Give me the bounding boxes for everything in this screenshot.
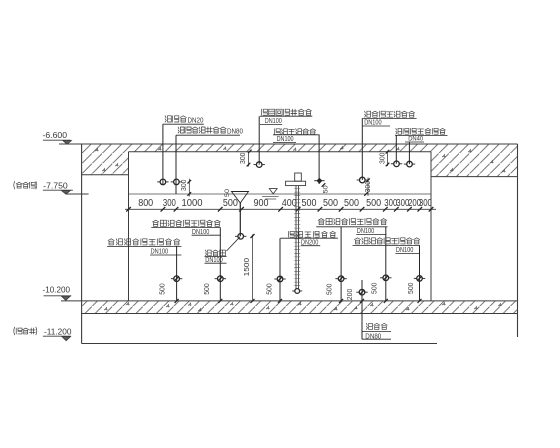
left wall inner face [128, 152, 130, 301]
label: drain pipe DN80 (fang kong guan) [366, 323, 387, 329]
label: outdoor hydrant pump suction pipe DN100 (right) [355, 238, 420, 244]
elbow symbol: overflow pipe bottom (to strainer) [238, 234, 244, 240]
elbow symbol: inlet pipe end [174, 179, 180, 185]
svg-text:500: 500 [267, 283, 274, 295]
svg-text:DN20: DN20 [188, 118, 204, 125]
svg-text:500: 500 [160, 283, 167, 295]
right wall section block (hatched) [431, 144, 518, 177]
svg-text:900: 900 [254, 198, 269, 209]
elbow symbol: hydrant test pipe outlet [360, 177, 366, 183]
pipe: level signal conduit 2 [408, 142, 410, 164]
label: indoor hydrant pump suction pipe DN100 (left) [153, 220, 221, 226]
svg-text:300: 300 [181, 179, 188, 191]
pipe: sprinkler suction leader+stub [279, 238, 281, 301]
label: sprinkler pump test pipe DN100 (pen lin beng shi shui guan) [274, 129, 315, 135]
svg-text:DN80: DN80 [227, 129, 243, 136]
water surface symbol (open triangle + ripples) [269, 189, 277, 194]
normal water level line [129, 193, 432, 195]
svg-text:DN100: DN100 [151, 248, 169, 255]
pipe: indoor hydrant suction (right) stub A [340, 227, 342, 301]
pipe: level signal conduit 1 [395, 135, 397, 163]
svg-text:500: 500 [302, 198, 317, 209]
right wall inner face [430, 152, 432, 301]
pipe: fire pool inlet pipe DN80 [175, 135, 177, 194]
ground line (elev -6.600) [59, 143, 518, 145]
svg-text:800: 800 [138, 198, 153, 209]
svg-text:300: 300 [240, 152, 247, 164]
elevation marker (normal water level) -7.750 [14, 181, 37, 189]
svg-text:-11.200: -11.200 [44, 326, 72, 336]
suction sump bottom line (elev -11.200) [82, 343, 437, 345]
svg-text:500: 500 [327, 283, 334, 295]
label: alarm valve group drain pipe DN100 (bao jing fa zu pai shui guan) [261, 109, 311, 115]
svg-text:DN100: DN100 [265, 118, 282, 125]
elbow symbol: conduit 1 end [394, 161, 400, 167]
concrete hatch marks [95, 146, 506, 311]
pipe: sprinkler test pipe [318, 135, 320, 184]
left wall section block (hatched) [82, 144, 129, 175]
label: level signal conduit DN40 (ye wei xin hao chuan kong guan) [396, 128, 446, 134]
svg-text:500: 500 [223, 198, 238, 209]
svg-text:500: 500 [408, 282, 415, 294]
pipe: hydrant test pipe [361, 118, 363, 180]
elbow symbol: standpipe bottom [295, 289, 300, 294]
pipe: outdoor hydrant suction (right) stub [419, 246, 421, 301]
pipe: indoor hydrant suction (right) stub B [385, 227, 387, 301]
svg-text:DN100: DN100 [357, 228, 375, 235]
svg-text:300: 300 [379, 152, 386, 164]
elbow symbol: float ball pipe end [160, 179, 166, 185]
level gauge standpipe assembly (cap + flange + graduated stem) [295, 173, 302, 181]
pipe: indoor hydrant suction (left) leader+stub [219, 228, 221, 301]
label: sprinkler pump suction pipe DN200 [288, 231, 335, 237]
svg-text:-10.200: -10.200 [43, 285, 71, 295]
svg-text:300: 300 [365, 181, 372, 193]
pipe: float ball pipe DN20 [162, 124, 164, 185]
leader from strainer label to overflow pipe end [227, 237, 241, 251]
label: indoor hydrant pump suction pipe DN100 (right) [318, 219, 387, 225]
svg-text:50: 50 [323, 185, 330, 193]
right wall outer face [517, 144, 519, 337]
elbow symbol: alarm drain end [256, 162, 262, 168]
graduation ticks on standpipe [294, 189, 300, 286]
tank top slab (hatched) [129, 144, 432, 152]
svg-text:500: 500 [372, 282, 379, 294]
pipe: drain (empty) pipe stub 200 above floor [361, 280, 363, 339]
svg-text:500: 500 [366, 198, 381, 209]
svg-text:500: 500 [204, 283, 211, 295]
svg-text:DN40: DN40 [408, 136, 423, 143]
pipe: alarm valve drain pipe [258, 116, 260, 164]
svg-text:200: 200 [347, 289, 354, 301]
label: outdoor hydrant pump suction pipe DN100 (left) [108, 239, 180, 245]
elevation marker (suction sump) -11.200 [14, 327, 37, 335]
svg-text:300: 300 [163, 198, 176, 209]
horizontal dimension line [125, 208, 436, 210]
svg-text:500: 500 [323, 198, 338, 209]
svg-text:DN100: DN100 [364, 120, 382, 127]
elbow symbol: conduit 2 end [407, 161, 413, 167]
svg-text:DN100: DN100 [192, 229, 210, 236]
svg-text:50: 50 [224, 189, 231, 197]
label: fire pool inlet pipe DN80 (xiao fang shui chi jin shui guan) [178, 127, 226, 133]
svg-text:300: 300 [419, 198, 432, 209]
tank floor slab (hatched) [82, 301, 518, 314]
pipe: overflow funnel drop pipe [239, 203, 241, 236]
left wall outer face [81, 144, 83, 344]
label: strainer DN100 (lv shui qi) [206, 250, 226, 256]
pipe: outdoor hydrant suction (left) leader+stub [176, 246, 178, 301]
label: float ball pipe DN20 (fu qiu guan DN20) [165, 116, 186, 122]
overflow funnel (bell mouth up) [232, 192, 249, 204]
svg-text:1000: 1000 [182, 198, 203, 209]
svg-text:DN100: DN100 [277, 136, 294, 143]
svg-text:-6.600: -6.600 [43, 130, 68, 140]
svg-text:-7.750: -7.750 [43, 180, 68, 190]
svg-text:DN100: DN100 [396, 247, 414, 254]
diamond symbol: sprinkler test pipe outlet [316, 178, 322, 184]
svg-text:500: 500 [344, 198, 359, 209]
label: hydrant pump test pipe DN100 (xiao huo shuan beng shi shui guan) [365, 111, 415, 117]
svg-text:1500: 1500 [242, 258, 251, 277]
